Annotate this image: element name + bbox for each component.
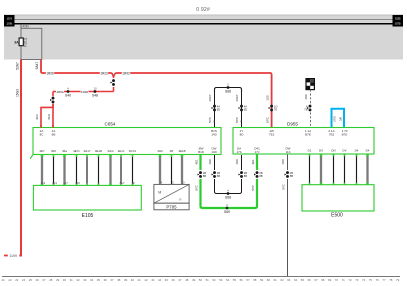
- svg-text:1S07: 1S07: [235, 94, 239, 102]
- svg-text:74: 74: [362, 278, 366, 282]
- svg-text:17b: 17b: [236, 150, 241, 154]
- svg-text:D4: D4: [366, 149, 370, 153]
- off-page reference 1199: [4, 255, 8, 257]
- svg-text:D1: D1: [308, 149, 312, 153]
- red pin entries into C654: [40, 125, 42, 128]
- wire to E500 pin 6: [366, 154, 368, 185]
- svg-text:E500: E500: [331, 213, 343, 219]
- svg-text:57C: 57C: [194, 184, 198, 190]
- svg-text:66: 66: [308, 278, 312, 282]
- svg-text:29: 29: [56, 278, 60, 282]
- svg-text:7E2: 7E2: [269, 132, 275, 136]
- splice S40: [65, 86, 71, 97]
- svg-text:C: C: [172, 180, 174, 184]
- svg-text:8B: 8B: [259, 174, 263, 178]
- splice S68 lower: [225, 188, 231, 199]
- black wire C654 pin 14D down to splice S68 (lower): [214, 155, 216, 170]
- svg-text:1R23: 1R23: [100, 71, 108, 75]
- wire to E105 pin 4: [76, 155, 78, 185]
- svg-text:3G/2: 3G/2: [107, 149, 114, 153]
- svg-text:DN: DN: [331, 149, 335, 153]
- svg-text:114: 114: [41, 181, 46, 185]
- fuse module box 42M: [21, 25, 42, 60]
- svg-text:53: 53: [219, 278, 223, 282]
- svg-text:72: 72: [348, 278, 352, 282]
- svg-text:54: 54: [226, 278, 230, 282]
- svg-text:23: 23: [15, 278, 19, 282]
- power distribution box band: [4, 15, 403, 60]
- connector D955 box: [233, 128, 374, 155]
- svg-text:21: 21: [2, 278, 6, 282]
- svg-text:34: 34: [90, 278, 94, 282]
- svg-text:61: 61: [274, 278, 278, 282]
- svg-text:78: 78: [389, 278, 393, 282]
- svg-text:1S0: 1S0: [304, 94, 308, 100]
- svg-text:56: 56: [240, 278, 244, 282]
- svg-text:n: n: [180, 197, 182, 201]
- svg-text:3H3: 3H3: [157, 149, 163, 153]
- svg-text:1R26: 1R26: [81, 90, 89, 94]
- wire to E105 pin 1: [41, 155, 43, 185]
- svg-text:7E5: 7E5: [329, 132, 335, 136]
- svg-text:57C: 57C: [235, 116, 239, 122]
- svg-text:64: 64: [294, 278, 298, 282]
- svg-text:8B: 8B: [217, 174, 221, 178]
- svg-text:S69: S69: [224, 210, 230, 214]
- power bus line (upper, gray): [14, 19, 393, 21]
- svg-text:37: 37: [110, 278, 114, 282]
- bottom grid ruler line: [2, 276, 400, 278]
- band top edge: [4, 14, 403, 16]
- svg-text:60: 60: [267, 278, 271, 282]
- wire to E105 pin 6: [98, 155, 100, 185]
- inline connector at red junction: [112, 73, 116, 77]
- svg-text:35: 35: [97, 278, 101, 282]
- svg-text:4E1: 4E1: [194, 159, 198, 165]
- svg-text:14D: 14D: [211, 132, 217, 136]
- svg-text:DV: DV: [342, 149, 346, 153]
- svg-text:D955: D955: [287, 122, 298, 127]
- connector C654 box: [33, 128, 221, 155]
- svg-text:314: 314: [52, 181, 57, 185]
- bottom grid ruler numbers: [2, 278, 400, 282]
- svg-text:25: 25: [29, 278, 33, 282]
- svg-text:26: 26: [36, 278, 40, 282]
- red wire from fuse, left vertical run: [19, 60, 21, 256]
- gray wire D955 pin 11b to ground run: [287, 155, 289, 171]
- wire to E105 pin 3: [63, 155, 65, 185]
- svg-text:58: 58: [253, 278, 257, 282]
- svg-text:1S0: 1S0: [281, 159, 285, 165]
- svg-text:73: 73: [355, 278, 359, 282]
- svg-text:33: 33: [83, 278, 87, 282]
- wire to E500 pin 5: [356, 154, 358, 185]
- svg-text:31: 31: [70, 278, 74, 282]
- svg-text:7E: 7E: [274, 108, 278, 112]
- svg-text:39: 39: [124, 278, 128, 282]
- power bus line (lower, black): [14, 23, 393, 25]
- svg-text:46: 46: [172, 278, 176, 282]
- C654 corner pigtail: [30, 155, 33, 159]
- svg-text:4E1: 4E1: [251, 159, 255, 165]
- svg-text:8B: 8B: [244, 174, 248, 178]
- svg-text:70: 70: [335, 278, 339, 282]
- svg-text:45: 45: [165, 278, 169, 282]
- svg-text:41: 41: [138, 278, 142, 282]
- svg-text:S48: S48: [92, 94, 98, 98]
- svg-text:C654: C654: [105, 122, 116, 127]
- svg-text:38: 38: [117, 278, 121, 282]
- red branch wire to C654 pins: [53, 91, 114, 93]
- svg-text:31C: 31C: [35, 113, 39, 119]
- wire to E105 pin 9: [132, 155, 134, 185]
- fuse F2011: [14, 37, 27, 46]
- svg-text:P705: P705: [166, 204, 177, 209]
- svg-text:1S0: 1S0: [265, 95, 269, 101]
- green wire C654 to splice S69 (left): [199, 155, 201, 170]
- wire to E105 pin 2: [53, 155, 55, 185]
- cyan jumper wire: [332, 109, 345, 128]
- dashed wire from shielded component: [310, 90, 312, 128]
- svg-text:D: D: [182, 180, 184, 184]
- svg-text:B7E: B7E: [342, 132, 348, 136]
- svg-text:57C: 57C: [281, 183, 285, 189]
- right bus terminal box: [393, 15, 404, 27]
- svg-text:4E1B: 4E1B: [178, 149, 185, 153]
- svg-text:8B: 8B: [52, 132, 56, 136]
- svg-text:1199: 1199: [9, 254, 17, 258]
- svg-text:B7E: B7E: [305, 132, 311, 136]
- svg-text:15G3: 15G3: [16, 89, 20, 97]
- wire to P705 pin 2: [171, 155, 173, 184]
- svg-text:4E7: 4E7: [119, 181, 125, 185]
- svg-text:42M: 42M: [22, 25, 29, 29]
- svg-text:4E1R: 4E1R: [95, 149, 102, 153]
- red wire continuation to right with corner down: [115, 73, 271, 127]
- svg-text:1D3: 1D3: [6, 17, 12, 21]
- svg-text:57C: 57C: [251, 184, 255, 190]
- svg-text:4E7: 4E7: [39, 149, 45, 153]
- shielded connector component: [306, 79, 314, 90]
- splice S69: [224, 203, 230, 214]
- svg-text:46a: 46a: [62, 149, 67, 153]
- svg-text:F2011: F2011: [24, 37, 28, 46]
- svg-text:S7B: S7B: [395, 22, 401, 26]
- wire to E105 pin 8: [120, 155, 122, 185]
- svg-text:316: 316: [75, 181, 80, 185]
- svg-text:8B: 8B: [290, 174, 294, 178]
- green wire D955 pin 17J down to splice S69: [256, 155, 258, 171]
- svg-text:24: 24: [22, 278, 26, 282]
- svg-text:4F: 4F: [132, 181, 136, 185]
- svg-text:17J: 17J: [255, 150, 260, 154]
- left bus terminal box: [4, 15, 15, 27]
- svg-text:10: 10: [93, 86, 97, 90]
- svg-text:32: 32: [76, 278, 80, 282]
- svg-text:7B: 7B: [304, 108, 308, 112]
- svg-text:42: 42: [144, 278, 148, 282]
- black wire drop to D955 pin: [241, 91, 243, 127]
- wire to E105 pin 7: [109, 155, 111, 185]
- wire to E105 pin 5: [86, 155, 88, 185]
- svg-text:4E7v: 4E7v: [73, 149, 80, 153]
- wire to P705 pin 3: [181, 155, 183, 184]
- wire to E500 pin 4: [344, 154, 346, 185]
- svg-text:51: 51: [206, 278, 210, 282]
- svg-text:D4: D4: [355, 149, 359, 153]
- splice S48: [92, 86, 98, 97]
- wire to E500 pin 1: [309, 154, 311, 185]
- svg-text:306: 306: [51, 149, 56, 153]
- svg-text:S40: S40: [65, 94, 71, 98]
- svg-text:8B: 8B: [203, 174, 207, 178]
- svg-text:40: 40: [131, 278, 135, 282]
- svg-text:62: 62: [280, 278, 284, 282]
- svg-text:69: 69: [328, 278, 332, 282]
- svg-text:M: M: [158, 191, 161, 195]
- svg-text:47: 47: [178, 278, 182, 282]
- svg-text:S2B: S2B: [395, 17, 401, 21]
- svg-text:22: 22: [8, 278, 12, 282]
- svg-text:B1D: B1D: [198, 150, 205, 154]
- inline connector on red branch: [50, 97, 54, 104]
- svg-text:4R: 4R: [170, 149, 174, 153]
- svg-text:36: 36: [104, 278, 108, 282]
- svg-text:S68: S68: [225, 90, 231, 94]
- svg-text:117: 117: [63, 181, 68, 185]
- svg-text:9A47: 9A47: [35, 61, 39, 69]
- svg-text:43: 43: [151, 278, 155, 282]
- svg-text:79: 79: [396, 278, 400, 282]
- svg-text:S68: S68: [225, 196, 231, 200]
- svg-text:1S0: 1S0: [235, 159, 239, 165]
- svg-text:31D: 31D: [47, 113, 51, 119]
- svg-text:3G7A: 3G7A: [129, 149, 136, 153]
- svg-text:57C: 57C: [265, 116, 269, 122]
- svg-text:28: 28: [49, 278, 53, 282]
- wire to P705 pin 1: [159, 155, 161, 184]
- pump motor P705 box: [154, 184, 189, 209]
- svg-text:50: 50: [199, 278, 203, 282]
- svg-text:52: 52: [212, 278, 216, 282]
- svg-text:65: 65: [301, 278, 305, 282]
- svg-text:27/2: 27/2: [332, 116, 336, 122]
- svg-text:30: 30: [63, 278, 67, 282]
- wire to E500 pin 2: [320, 154, 322, 185]
- svg-text:67: 67: [314, 278, 318, 282]
- svg-text:48: 48: [185, 278, 189, 282]
- svg-text:3/0: 3/0: [339, 117, 343, 122]
- svg-text:57C: 57C: [208, 116, 212, 122]
- svg-text:49: 49: [192, 278, 196, 282]
- svg-text:1R92: 1R92: [122, 71, 130, 75]
- svg-text:59: 59: [260, 278, 264, 282]
- svg-text:DX: DX: [319, 149, 323, 153]
- svg-text:8D: 8D: [217, 108, 221, 112]
- red wire from module right edge, horizontal feed: [41, 60, 112, 74]
- svg-text:E105: E105: [82, 213, 94, 219]
- svg-text:57: 57: [246, 278, 250, 282]
- svg-text:1R5a: 1R5a: [56, 90, 64, 94]
- svg-text:1S07: 1S07: [208, 94, 212, 102]
- wire stub bus to module: [20, 24, 22, 28]
- svg-text:71: 71: [342, 278, 346, 282]
- black jumper net with splice S68 (upper): [215, 88, 242, 93]
- svg-text:44: 44: [158, 278, 162, 282]
- svg-text:27: 27: [42, 278, 46, 282]
- svg-text:4E1J: 4E1J: [118, 149, 125, 153]
- svg-text:1R06: 1R06: [46, 71, 54, 75]
- svg-text:11b: 11b: [286, 150, 291, 154]
- black wire drop to C654 pin: [214, 91, 216, 127]
- svg-text:76: 76: [376, 278, 380, 282]
- svg-text:55: 55: [233, 278, 237, 282]
- svg-text:52A7: 52A7: [16, 62, 20, 70]
- svg-text:3A: 3A: [14, 41, 19, 45]
- svg-text:77: 77: [382, 278, 386, 282]
- svg-text:14D: 14D: [211, 150, 217, 154]
- svg-text:8D: 8D: [244, 108, 248, 112]
- svg-text:75: 75: [369, 278, 373, 282]
- ECU E500 box: [302, 185, 374, 211]
- svg-text:3H17: 3H17: [84, 149, 91, 153]
- black wire D955 pin 17b down: [241, 155, 243, 170]
- wire to E500 pin 3: [333, 154, 335, 185]
- ECU E105 box: [33, 185, 141, 210]
- svg-text:68: 68: [321, 278, 325, 282]
- svg-text:63: 63: [287, 278, 291, 282]
- svg-text:0 92#: 0 92#: [196, 7, 211, 13]
- svg-text:1S0: 1S0: [208, 159, 212, 165]
- svg-text:10B: 10B: [7, 22, 12, 26]
